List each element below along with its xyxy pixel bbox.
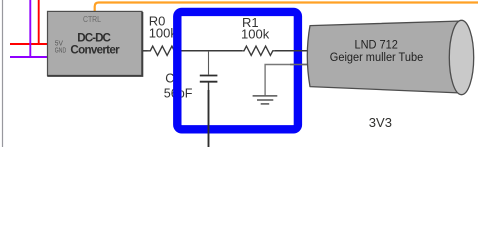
wire GND purple vertical <box>29 0 31 58</box>
svg-text:C: C <box>165 72 174 86</box>
wire R0 to junction to R1 (HV node) <box>180 50 242 52</box>
wire GND purple horizontal <box>10 56 48 58</box>
wire R1 to anode <box>275 50 292 52</box>
svg-text:CTRL: CTRL <box>83 14 101 24</box>
left page border line <box>2 0 4 147</box>
svg-text:Geiger muller Tube: Geiger muller Tube <box>330 50 424 64</box>
wire cathode crossing blue border <box>290 64 308 66</box>
capacitor C1 stem top <box>208 51 210 75</box>
wire 5V red vertical <box>38 0 40 45</box>
DC-DC converter module body <box>47 11 142 76</box>
label DC-DC Converter <box>70 32 120 57</box>
svg-text:100k: 100k <box>149 26 178 41</box>
wire 5V red horizontal <box>10 43 48 45</box>
wire capacitor bottom to edge <box>208 82 210 90</box>
ground symbol <box>253 96 278 104</box>
capacitor C 56pF plates <box>200 76 218 82</box>
wire CTRL orange <box>95 3 478 12</box>
svg-text:GND: GND <box>55 45 67 54</box>
resistor R1 <box>242 46 274 55</box>
resistor R0 <box>148 46 182 55</box>
wire cathode to ground <box>265 65 307 96</box>
svg-text:Converter: Converter <box>70 44 120 57</box>
annotation rectangle (blue highlight box) <box>177 12 298 129</box>
wire from converter output pin <box>142 50 147 52</box>
wire anode crossing blue border <box>290 50 308 52</box>
Geiger tube LND712 body <box>307 20 473 94</box>
svg-text:100k: 100k <box>241 26 270 41</box>
svg-text:3V3: 3V3 <box>369 115 392 130</box>
Geiger tube end cap ellipse <box>449 20 473 94</box>
